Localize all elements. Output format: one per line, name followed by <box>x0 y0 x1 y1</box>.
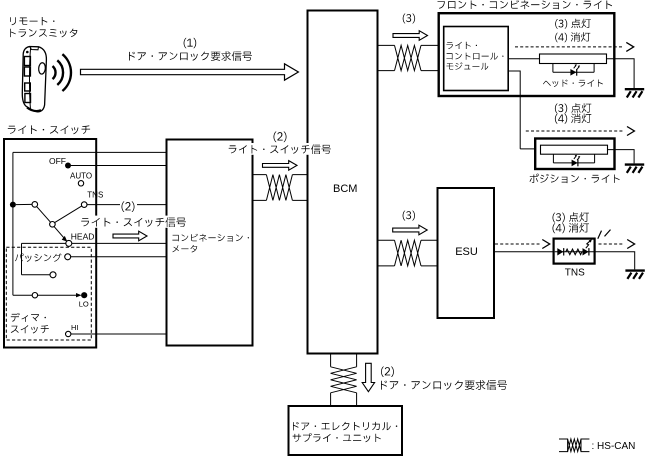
key fob button 4 <box>25 94 31 103</box>
HS-CAN bus BCM-door: vertical lines <box>331 354 357 407</box>
wire: TNS lamp to ground 3 <box>595 252 635 270</box>
svg-text:ESU: ESU <box>455 246 478 258</box>
white label backgrounds <box>80 143 332 228</box>
headlight LED light arrows <box>574 66 579 70</box>
LO lever joint circle <box>32 293 37 298</box>
label on1: (3) 点灯 <box>555 19 591 29</box>
label p3a: (3) <box>403 14 415 24</box>
HS-CAN bus meter-BCM: bottom lines <box>253 199 308 201</box>
front combination light box <box>439 13 615 96</box>
svg-text:TNS: TNS <box>87 190 103 199</box>
label lsw: ライト・スイッチ <box>8 125 90 134</box>
radio wave arc inner <box>53 66 56 79</box>
open arrow (2) light switch signal at meter <box>263 161 298 171</box>
label p2b: (2) <box>122 201 135 212</box>
label unlock1: ドア・アンロック要求信号 <box>129 51 252 61</box>
label on3: (3) 点灯 <box>553 212 590 222</box>
ESU box <box>438 188 495 318</box>
ground 2 bar <box>625 163 644 165</box>
OFF contact dot (filled) <box>65 163 71 169</box>
position LED light arrows <box>574 156 579 160</box>
HS-CAN bus BCM-door: twisted pair zigzag <box>331 367 357 393</box>
wire: module down to position light <box>508 71 540 149</box>
TNS lamp box <box>554 239 595 264</box>
ground 3 bar <box>625 269 644 271</box>
remote transmitter key fob body <box>22 47 46 112</box>
key fob button 1 <box>24 57 30 66</box>
key fob side face divider <box>29 47 30 110</box>
wire: passing contact to meter <box>71 256 167 258</box>
label p2c: (2) <box>381 367 394 378</box>
TNS diode 1 bar <box>563 248 565 255</box>
HS-CAN bus BCM-ESU: twisted pair zigzag <box>395 240 422 266</box>
ground 2 hatches <box>627 167 643 173</box>
headlight LED diode <box>570 69 576 76</box>
arrowhead on LO lever <box>76 293 82 297</box>
label p2a: (2) <box>274 132 287 143</box>
HS-CAN bus meter-BCM: twisted pair zigzag <box>266 175 292 201</box>
TNS contact (open) <box>81 202 87 208</box>
key fob bottom edge <box>27 108 41 112</box>
HS-CAN bus meter-BCM: top lines <box>253 174 308 176</box>
dimmer switch dashed box <box>6 247 91 340</box>
headlight sub-box <box>553 64 594 73</box>
position light sub-box <box>553 154 594 163</box>
label meter2: メータ <box>172 245 197 253</box>
label off3: (4) 消灯 <box>553 223 590 233</box>
TNS diode 1 <box>557 248 563 255</box>
label mod2: コントロール・ <box>446 53 503 60</box>
open arrow (3) to ESU <box>393 225 428 235</box>
HS-CAN bus BCM-ESU: top lines <box>378 239 438 241</box>
key fob oval button <box>38 62 46 74</box>
passing lower contact (open) <box>50 272 56 278</box>
label off1: (4) 消灯 <box>555 32 590 42</box>
HI contact (open) <box>66 331 71 336</box>
TNS LED bolt arrowhead <box>589 239 592 242</box>
TNS LED diode <box>583 248 589 255</box>
wire: bracket to lower contact <box>22 274 51 276</box>
wire: lever to pivot <box>37 207 51 223</box>
ground 3 hatches <box>627 273 643 279</box>
key fob small dot <box>27 51 29 53</box>
HEAD contact (open) <box>66 240 72 246</box>
label remote2: トランスミッタ <box>10 29 77 38</box>
wire: switch top row to meter <box>13 151 167 153</box>
position LED diode <box>572 160 578 167</box>
HS-CAN bus BCM-ESU: bottom lines <box>378 265 438 267</box>
Latin text labels <box>49 156 635 452</box>
AUTO contact (open) <box>78 181 83 186</box>
wire: OFF contact to meter <box>71 165 167 167</box>
wire: pivot to TNS contact <box>55 206 82 222</box>
open down arrow (2) door unlock request <box>362 363 374 391</box>
label meter1: コンビネーション・ <box>172 234 249 242</box>
passing contact (open) <box>65 254 71 260</box>
dashed arrow head 2 <box>627 127 634 136</box>
lever pivot circle <box>50 222 56 228</box>
wire: ESU to TNS lamp <box>494 251 553 253</box>
label remote1: リモート・ <box>10 17 54 25</box>
wire: TNS contact to meter <box>87 204 167 206</box>
dashed arrow (3)(4) TNS left <box>495 243 540 245</box>
light switch box <box>4 139 96 348</box>
combination meter box <box>167 140 253 346</box>
svg-text:AUTO: AUTO <box>70 171 92 180</box>
radio wave arc middle <box>57 60 63 85</box>
svg-text:: HS-CAN: : HS-CAN <box>592 441 636 452</box>
svg-text:HEAD: HEAD <box>71 231 95 241</box>
legend bracket left <box>559 439 568 452</box>
dashed arrow (3)(4) position light <box>526 130 624 132</box>
headlight LED cathode bar <box>576 69 578 76</box>
TNS internal wire <box>555 251 594 253</box>
label unlock2: ドア・アンロック要求信号 <box>381 380 507 390</box>
HS-CAN bus BCM-front: bottom lines <box>378 70 444 72</box>
HS-CAN bus BCM-front: twisted pair zigzag <box>395 45 422 70</box>
position light box <box>535 139 614 170</box>
label mod3: モジュール <box>446 62 488 70</box>
dashed arrow head 1 <box>626 42 633 51</box>
svg-text:TNS: TNS <box>565 268 585 279</box>
headlight tube <box>540 54 607 64</box>
svg-text:HI: HI <box>71 323 79 332</box>
wire: HI contact to meter <box>71 333 167 335</box>
key fob top notch <box>30 47 39 50</box>
wire: pivot toward HEAD <box>54 226 64 238</box>
open arrow (2) light switch signal in switch area <box>113 231 147 241</box>
TNS light slashes <box>598 230 611 239</box>
dashed arrow (3)(4) headlight <box>515 46 623 48</box>
svg-text:LO: LO <box>79 300 89 309</box>
position light tube <box>541 145 608 154</box>
HS-CAN bus BCM-front: top lines <box>378 44 444 46</box>
open arrow (3) to front light <box>393 31 428 41</box>
label pass: パッシング <box>15 253 62 262</box>
dashed arrow (3)(4) TNS right <box>599 243 625 245</box>
TNS resistor <box>566 249 582 255</box>
label dima1: ディマ・ <box>11 313 46 322</box>
wire: module to headlight tube <box>508 58 539 60</box>
label door1: ドア・エレクトリカル・ <box>293 422 397 431</box>
arrowhead on HEAD lever <box>62 236 68 242</box>
radio wave arc outer <box>62 54 71 91</box>
legend twisted pair zigzag <box>568 439 581 452</box>
key fob button 3 <box>25 83 31 91</box>
label pos: ポジション・ライト <box>530 174 620 184</box>
label door2: サプライ・ユニット <box>293 433 381 442</box>
TNS LED bar <box>588 248 590 255</box>
lever common junction dot <box>10 202 16 208</box>
TNS LED light bolt arrow <box>586 241 590 248</box>
wire: lever common segment <box>16 203 32 205</box>
ground 1 hatches <box>627 91 643 97</box>
dashed arrow head 3a <box>542 240 549 249</box>
label sig2: ライト・スイッチ信号 <box>229 144 331 154</box>
wire: bracket vertical <box>21 243 23 274</box>
label front: フロント・コンビネーション・ライト <box>438 0 613 9</box>
label p1: (1) <box>184 38 197 48</box>
wire: headlight tube to ground 1 <box>607 59 635 88</box>
key fob button 2 <box>24 67 30 76</box>
label on2: (3) 点灯 <box>555 103 591 113</box>
LO contact dot (filled) <box>81 292 87 298</box>
wire: LO lever to LO contact <box>38 294 77 296</box>
svg-text:OFF: OFF <box>49 156 66 166</box>
label head: ヘッド・ライト <box>543 80 603 88</box>
wire: HEAD row left bracket horizontal <box>22 242 66 244</box>
legend bracket right <box>581 439 589 452</box>
position LED cathode bar <box>577 160 579 167</box>
wire: HEAD contact to meter <box>72 242 167 244</box>
label mod1: ライト・ <box>446 42 477 49</box>
BCM box <box>308 11 378 354</box>
door electrical supply unit box <box>289 406 403 455</box>
wire: LO lever from common <box>13 294 32 296</box>
label sig1: ライト・スイッチ信号 <box>81 217 186 227</box>
lever joint circle <box>32 202 38 208</box>
light control module box <box>444 27 509 91</box>
label dima2: スイッチ <box>11 325 49 333</box>
dashed arrow head 3b <box>627 240 634 249</box>
big outline arrow (1) door unlock request signal <box>81 64 299 80</box>
ground 1 bar <box>625 88 644 90</box>
svg-text:BCM: BCM <box>333 183 357 195</box>
label p3b: (3) <box>403 211 415 221</box>
wire: switch inner left vertical <box>12 152 14 295</box>
label off2: (4) 消灯 <box>555 114 591 124</box>
wire: position tube to ground 2 <box>608 150 635 164</box>
